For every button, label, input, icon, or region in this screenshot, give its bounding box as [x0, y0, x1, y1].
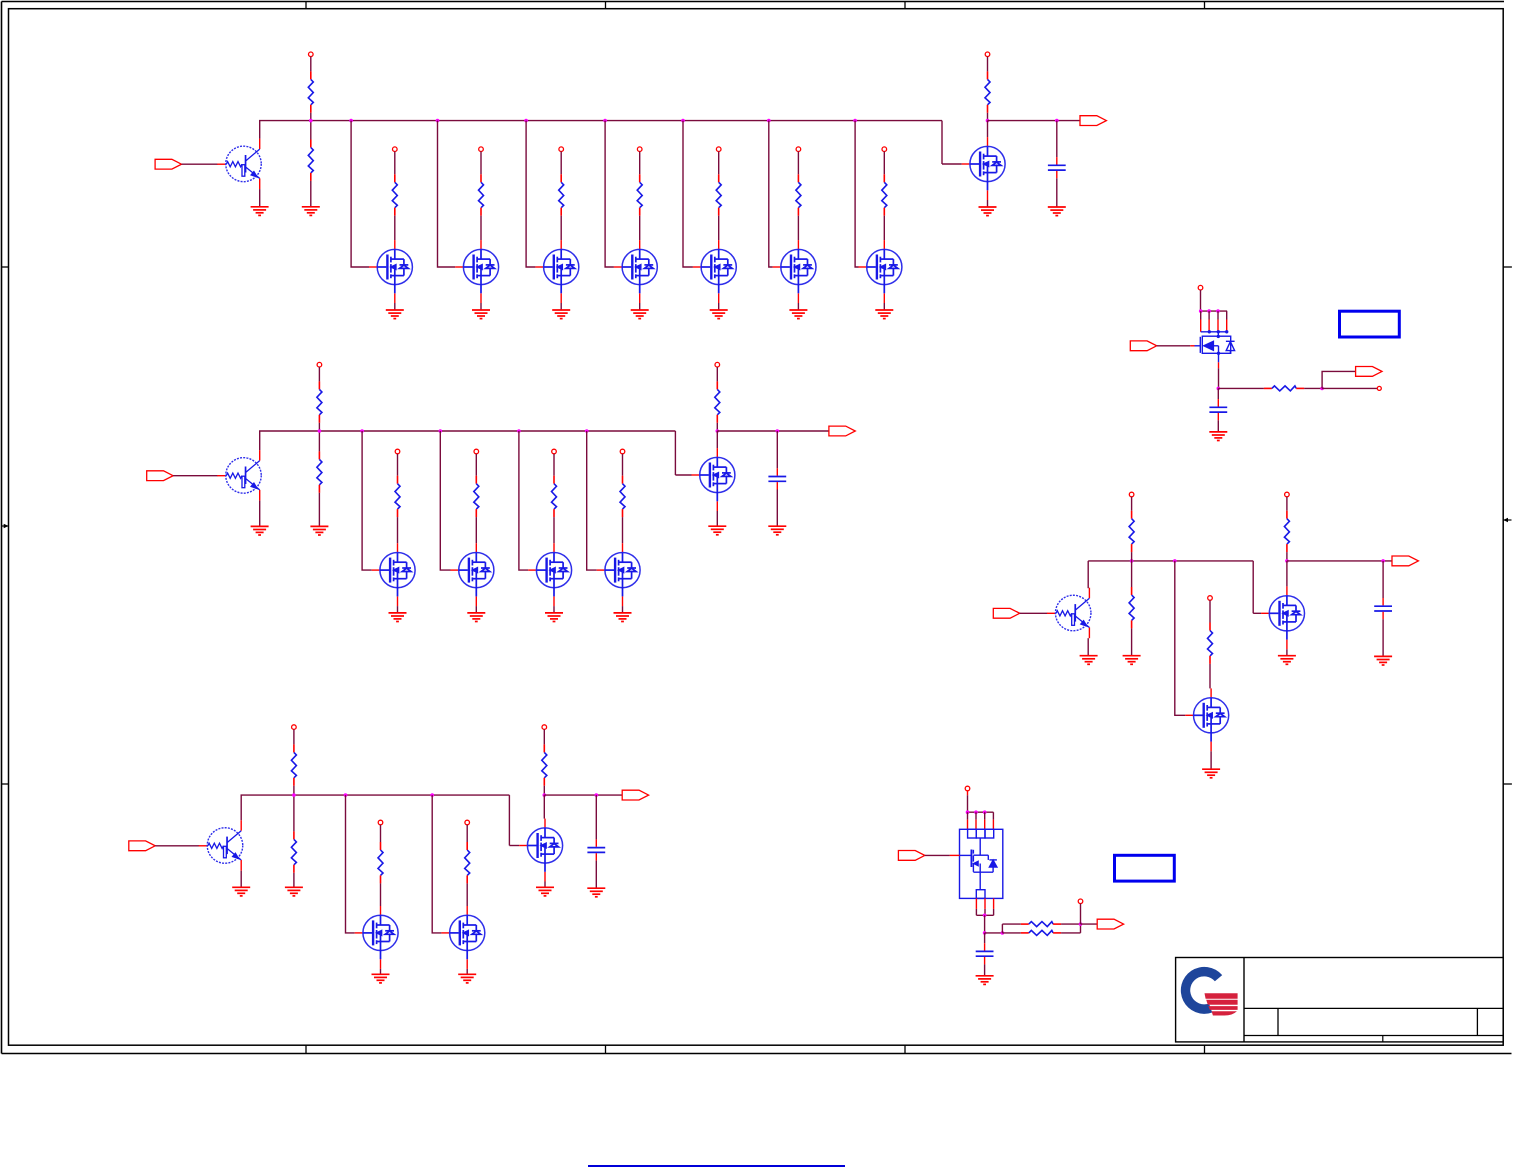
- drain pin: [975, 820, 977, 830]
- resistor: [1021, 922, 1061, 927]
- wire Q emitter to ground: [1087, 638, 1089, 655]
- title block bottom strip divider: [1382, 1036, 1384, 1042]
- ground: [1209, 432, 1227, 441]
- drain pin: [1226, 320, 1228, 332]
- junction: [349, 119, 353, 123]
- power node: [309, 52, 314, 57]
- P-MOSFET Q4: [1195, 330, 1235, 362]
- wire R to link: [1061, 932, 1080, 934]
- N-MOSFET output: [1261, 586, 1304, 649]
- junction: [585, 429, 589, 433]
- resistor: [552, 476, 557, 517]
- wire R to drain: [883, 216, 885, 240]
- bus wire: [259, 430, 675, 432]
- input port: [898, 851, 924, 861]
- border tick bottom: [605, 1045, 607, 1053]
- N-MOSFET output: [692, 448, 735, 511]
- wire Q collector to bus: [1087, 561, 1089, 588]
- junction: [430, 793, 434, 797]
- drain pin: [1217, 320, 1219, 332]
- wire Q1 emitter to ground: [259, 189, 261, 206]
- wire source to ground: [397, 606, 399, 613]
- output port: [829, 426, 855, 436]
- bus wire down: [941, 121, 943, 164]
- junction: [983, 914, 987, 918]
- N-MOSFET: [614, 240, 657, 303]
- gate pin: [1190, 345, 1194, 347]
- border tick right: [1503, 266, 1512, 268]
- power MOSFET module Q6: [960, 829, 1003, 898]
- wire drain drop: [1217, 311, 1219, 319]
- ground: [302, 207, 320, 216]
- wire source drop: [993, 909, 995, 915]
- wire source drop: [975, 909, 977, 915]
- junction: [983, 810, 987, 814]
- wire power to R: [380, 825, 382, 842]
- N-MOSFET: [773, 240, 816, 303]
- junction: [716, 429, 720, 433]
- wire node to cap: [595, 795, 597, 839]
- output port: [1356, 367, 1382, 377]
- border tick bottom: [1204, 1045, 1206, 1053]
- source pin: [975, 898, 977, 909]
- power node: [479, 147, 484, 152]
- resistor: [620, 476, 625, 517]
- wire R to drain: [394, 216, 396, 240]
- wire power to R: [475, 454, 477, 476]
- wire power to R: [797, 152, 799, 175]
- wire drain top bus: [1201, 310, 1228, 312]
- wire R to node: [1061, 923, 1080, 925]
- wire node to drain: [1286, 561, 1288, 587]
- wire power to R: [622, 454, 624, 476]
- wire link right: [1080, 924, 1082, 933]
- wire bus to gate: [605, 121, 614, 267]
- wire R to ground: [310, 181, 312, 207]
- N-MOSFET: [451, 543, 494, 606]
- wire power to R: [543, 729, 545, 744]
- wire node to port: [717, 430, 829, 432]
- resistor: [882, 174, 887, 215]
- junction: [1320, 387, 1324, 391]
- wire source to ground: [639, 303, 641, 310]
- ground: [1123, 656, 1141, 665]
- junction: [853, 119, 857, 123]
- drain pin: [967, 820, 969, 830]
- N-MOSFET output: [962, 137, 1005, 200]
- resistor pull-up: [291, 744, 296, 785]
- title block cell divider: [1277, 1008, 1279, 1035]
- wire bus to gate: [683, 121, 693, 267]
- open terminal node: [1377, 386, 1381, 390]
- drain pin: [1208, 320, 1210, 332]
- outer border left: [1, 2, 3, 1054]
- wire source to ground: [394, 303, 396, 310]
- wire input to gate: [1157, 345, 1191, 347]
- wire R to drain: [639, 216, 641, 240]
- outer border top: [2, 1, 1505, 3]
- junction: [1216, 309, 1220, 313]
- ground: [875, 310, 893, 319]
- wire R to drain: [718, 216, 720, 240]
- wire to Q gate: [675, 474, 691, 476]
- N-MOSFET: [859, 240, 902, 303]
- ground: [545, 613, 563, 622]
- wire drain drop: [1200, 311, 1202, 319]
- power node: [552, 449, 557, 454]
- power node: [559, 147, 564, 152]
- ground: [251, 526, 269, 535]
- wire bus to gate: [432, 795, 441, 933]
- power node: [882, 147, 887, 152]
- N-MOSFET: [597, 543, 640, 606]
- ground: [386, 310, 404, 319]
- resistor pull-down: [317, 451, 322, 492]
- resistor pull-up: [317, 381, 322, 422]
- wire bus to gate: [526, 121, 535, 267]
- wire R to node: [1304, 387, 1322, 389]
- wire source to ground: [553, 606, 555, 613]
- input port: [993, 608, 1019, 618]
- ground: [472, 310, 490, 319]
- N-MOSFET output: [519, 819, 562, 882]
- junction: [1001, 931, 1005, 935]
- junction: [439, 429, 443, 433]
- digital transistor Q: [1047, 588, 1091, 639]
- wire power to R: [883, 152, 885, 175]
- wire to Q gate: [942, 163, 962, 165]
- wire R to drain: [475, 517, 477, 543]
- ground: [372, 974, 390, 983]
- wire node to port: [1287, 560, 1392, 562]
- wire Q emitter to ground: [240, 871, 242, 887]
- junction: [360, 429, 364, 433]
- wire power down: [1200, 290, 1202, 311]
- digital transistor Q1: [217, 139, 261, 190]
- wire R to drain: [553, 517, 555, 543]
- wire drain drop: [984, 812, 986, 819]
- junction: [1055, 119, 1059, 123]
- ground: [536, 887, 554, 896]
- wire bus to gate: [855, 121, 858, 267]
- wire drain top bus: [968, 811, 994, 813]
- wire cap to ground: [1217, 420, 1219, 431]
- junction: [681, 119, 685, 123]
- resistor pull-down: [308, 140, 313, 181]
- junction: [1079, 922, 1083, 926]
- power node: [637, 147, 642, 152]
- wire cap to ground: [776, 490, 778, 526]
- wire R to drain: [560, 216, 562, 240]
- wire source to ground: [622, 606, 624, 613]
- wire R to drain: [466, 883, 468, 906]
- ground: [232, 887, 250, 896]
- power node: [1285, 492, 1290, 497]
- title block row divider: [1244, 1035, 1503, 1037]
- wire Q emitter to ground: [259, 501, 261, 526]
- N-MOSFET: [528, 543, 571, 606]
- wire node to cap: [1382, 561, 1384, 598]
- border tick left: [2, 266, 9, 268]
- N-MOSFET: [369, 240, 412, 303]
- resistor: [559, 174, 564, 215]
- border tick left: [2, 783, 9, 785]
- power node: [985, 52, 990, 57]
- wire drain drop: [992, 812, 994, 819]
- junction: [1381, 559, 1385, 563]
- output port: [622, 790, 648, 800]
- wire input to Q base: [155, 845, 199, 847]
- wire source to ground: [883, 303, 885, 310]
- border tick bottom: [305, 1045, 307, 1053]
- footer underline: [588, 1165, 845, 1167]
- ground: [467, 613, 485, 622]
- wire drain drop: [967, 812, 969, 819]
- ground: [587, 888, 605, 897]
- junction: [1130, 559, 1134, 563]
- title block row divider: [1244, 1007, 1503, 1009]
- power node: [716, 147, 721, 152]
- wire bus to R: [1131, 561, 1133, 587]
- wire to R: [1218, 387, 1264, 389]
- power node: [965, 786, 970, 791]
- wire R to ground: [1131, 628, 1133, 655]
- border centre arrow right: [1503, 518, 1511, 522]
- ground: [1374, 656, 1392, 665]
- wire power to R: [1209, 600, 1211, 622]
- wire source to ground: [1286, 649, 1288, 655]
- wire source down: [1218, 368, 1220, 388]
- wire node to drain: [543, 795, 545, 819]
- wire to Q gate: [1253, 612, 1261, 614]
- ground: [458, 974, 476, 983]
- drain pin: [1200, 320, 1202, 332]
- resistor: [474, 476, 479, 517]
- ground: [979, 207, 997, 216]
- junction: [974, 810, 978, 814]
- wire drain drop: [1208, 311, 1210, 319]
- junction: [543, 793, 547, 797]
- resistor pull-down: [291, 831, 296, 872]
- power node: [620, 449, 625, 454]
- resistor pull-up: [715, 381, 720, 422]
- wire source to ground: [987, 200, 989, 207]
- digital transistor Q: [217, 450, 261, 501]
- wire to R upper: [1002, 923, 1020, 925]
- bus wire down: [674, 431, 676, 475]
- N-MOSFET: [1185, 688, 1228, 751]
- wire node to port: [1322, 371, 1356, 388]
- wire bus to gate: [1175, 561, 1186, 715]
- wire source to ground: [560, 303, 562, 310]
- title block cell divider: [1476, 1008, 1478, 1035]
- N-MOSFET: [355, 906, 398, 969]
- wire source to ground: [716, 511, 718, 526]
- capacitor: [1374, 598, 1392, 619]
- border tick top: [605, 2, 607, 9]
- wire link left: [1001, 924, 1003, 933]
- capacitor: [587, 839, 605, 860]
- capacitor: [1048, 157, 1066, 178]
- output port: [1392, 556, 1418, 566]
- junction: [983, 931, 987, 935]
- border tick right: [1503, 783, 1512, 785]
- power node: [317, 362, 322, 367]
- input port: [129, 841, 155, 851]
- wire R to bus: [310, 113, 312, 121]
- junction: [436, 119, 440, 123]
- wire power to R: [716, 367, 718, 381]
- resistor pull-up: [1284, 511, 1289, 552]
- bus wire: [241, 794, 510, 796]
- wire bus to R: [318, 431, 320, 451]
- bus wire down: [1252, 561, 1254, 613]
- power node: [715, 362, 720, 367]
- power node: [378, 820, 383, 825]
- wire R to bus: [1131, 552, 1133, 561]
- resistor: [1208, 623, 1213, 664]
- wire node to port: [544, 794, 622, 796]
- wire power to R: [480, 152, 482, 175]
- wire source drop: [984, 909, 986, 915]
- wire input to Q base: [1020, 612, 1048, 614]
- capacitor: [1209, 399, 1227, 420]
- wire bus to gate: [351, 121, 369, 267]
- wire R to drain: [380, 883, 382, 906]
- junction: [318, 429, 322, 433]
- wire input to gate: [925, 854, 950, 856]
- input port: [147, 471, 173, 481]
- wire source to ground: [380, 969, 382, 974]
- ground: [1048, 207, 1066, 216]
- wire power to R: [718, 152, 720, 175]
- power pin: [967, 791, 969, 795]
- ground: [614, 613, 632, 622]
- wire Q collector to bus: [259, 431, 261, 450]
- junction: [309, 119, 313, 123]
- wire R to ground: [318, 493, 320, 526]
- wire source to ground: [480, 303, 482, 310]
- wire R to drain: [797, 216, 799, 240]
- wire node to port: [988, 120, 1081, 122]
- wire source join: [976, 914, 993, 916]
- gate pin: [950, 854, 960, 856]
- border tick bottom: [904, 1045, 906, 1053]
- wire source to ground: [475, 606, 477, 613]
- resistor: [392, 174, 397, 215]
- title block logo cell divider: [1243, 958, 1245, 1042]
- wire power to R: [1131, 497, 1133, 511]
- resistor: [479, 174, 484, 215]
- resistor: [1021, 930, 1061, 935]
- wire node to drain: [987, 121, 989, 138]
- wire R to bus: [318, 423, 320, 431]
- wire power to R: [394, 152, 396, 175]
- junction: [1199, 309, 1203, 313]
- input port: [1130, 341, 1156, 351]
- wire bus to gate: [587, 431, 597, 570]
- junction: [767, 119, 771, 123]
- input port: [155, 159, 181, 169]
- wire input to Q base: [173, 475, 218, 477]
- power node: [292, 725, 297, 730]
- wire power to R: [560, 152, 562, 175]
- resistor pull-up: [308, 71, 313, 112]
- wire drain drop: [1226, 311, 1228, 319]
- ground: [710, 310, 728, 319]
- drain pin: [992, 820, 994, 830]
- capacitor: [768, 468, 786, 489]
- wire bus to gate: [346, 795, 355, 933]
- company logo: [1181, 967, 1238, 1016]
- junction: [344, 793, 348, 797]
- junction: [966, 810, 970, 814]
- resistor: [395, 476, 400, 517]
- wire bus to gate: [440, 431, 450, 570]
- title block outline: [1176, 958, 1504, 1042]
- power node: [1198, 285, 1203, 290]
- wire node to cap: [1056, 121, 1058, 158]
- resistor pull-up: [985, 71, 990, 112]
- resistor pull-down: [1129, 587, 1134, 628]
- wire source to ground: [797, 303, 799, 310]
- ground: [708, 526, 726, 535]
- wire to R lower: [1002, 932, 1020, 934]
- wire cap to ground: [984, 964, 986, 975]
- source pin: [993, 898, 995, 909]
- wire power to R: [318, 367, 320, 381]
- wire R to node: [1286, 552, 1288, 561]
- junction: [517, 429, 521, 433]
- junction: [1173, 559, 1177, 563]
- label box: [1115, 855, 1175, 881]
- resistor: [796, 174, 801, 215]
- wire R to node: [987, 113, 989, 121]
- power node: [393, 147, 398, 152]
- power node: [395, 449, 400, 454]
- wire node to R pair: [985, 932, 1003, 934]
- junction: [986, 119, 990, 123]
- power node: [1078, 899, 1083, 904]
- ground: [389, 613, 407, 622]
- power node: [474, 449, 479, 454]
- junction: [1207, 309, 1211, 313]
- output port: [1080, 116, 1106, 126]
- wire power to R: [293, 729, 295, 744]
- label box: [1340, 311, 1400, 337]
- power node: [1129, 492, 1134, 497]
- ground: [1202, 769, 1220, 778]
- N-MOSFET: [441, 906, 484, 969]
- wire power to R: [310, 57, 312, 72]
- wire source to ground: [718, 303, 720, 310]
- outer border bottom: [2, 1053, 1512, 1055]
- wire R to drain: [397, 517, 399, 543]
- wire node to cap: [776, 431, 778, 468]
- wire source to ground: [544, 882, 546, 888]
- N-MOSFET: [455, 240, 498, 303]
- ground: [631, 310, 649, 319]
- ground: [768, 526, 786, 535]
- wire Q collector to bus: [240, 795, 242, 820]
- junction: [603, 119, 607, 123]
- wire R to ground: [293, 873, 295, 887]
- wire Q1 collector to bus: [259, 121, 261, 139]
- wire input to Q1 base: [182, 163, 218, 165]
- wire power to R: [466, 825, 468, 842]
- resistor: [716, 174, 721, 215]
- junction: [1217, 387, 1221, 391]
